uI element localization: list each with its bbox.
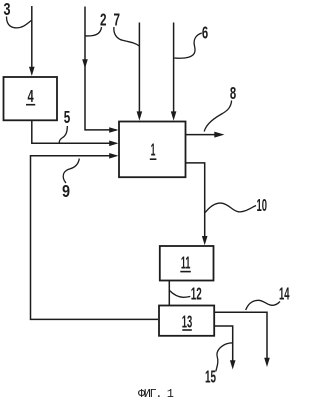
wire 7 (into box 1 top): [138, 23, 140, 113]
leader line for 14: [246, 300, 280, 310]
svg-text:7: 7: [113, 10, 120, 30]
svg-text:6: 6: [202, 22, 208, 42]
leader line for 6: [174, 33, 202, 58]
svg-text:12: 12: [191, 284, 202, 304]
svg-text:3: 3: [4, 0, 11, 19]
wire 5 (box 4 to box 1): [32, 121, 117, 144]
box 4: [4, 77, 58, 120]
leader line for 12: [170, 291, 191, 298]
svg-text:5: 5: [64, 107, 71, 127]
box 13: [159, 306, 214, 336]
svg-text:11: 11: [181, 252, 191, 272]
svg-text:15: 15: [205, 367, 216, 387]
wire 2 (vertical with mid arrowhead, then into box 1): [85, 7, 117, 130]
leader line for 10: [205, 203, 256, 212]
svg-text:10: 10: [257, 195, 268, 215]
svg-text:8: 8: [230, 83, 236, 103]
svg-text:9: 9: [62, 181, 70, 201]
wire 10 (box 1 right, down into box 11): [186, 163, 205, 237]
leader line for 9: [63, 159, 79, 184]
leader line for 8: [204, 101, 231, 132]
wire 15 (box 13 right, down): [214, 326, 232, 361]
box 1: [119, 122, 186, 178]
svg-text:1: 1: [151, 139, 156, 159]
wire 12 (box 11 to box 13): [168, 281, 170, 306]
svg-text:14: 14: [279, 284, 290, 304]
svg-text:13: 13: [182, 311, 193, 331]
leader line for 3: [7, 17, 32, 28]
wire 3 (into box 4): [31, 6, 33, 68]
leader line for 2: [85, 27, 101, 36]
box 11: [160, 246, 214, 281]
svg-text:ФИГ. 1: ФИГ. 1: [138, 387, 174, 400]
wire 8 (out of box 1 right): [186, 134, 215, 136]
svg-text:2: 2: [100, 10, 107, 30]
wire 9 (long left path into box 1 and down to box 13): [31, 156, 159, 320]
svg-text:4: 4: [28, 86, 34, 106]
leader line for 7: [114, 27, 139, 46]
leader line for 5: [59, 126, 67, 143]
wire 14 (box 13 right, down): [214, 312, 267, 358]
leader line for 15: [216, 343, 233, 372]
wire 6 (into box 1 top): [173, 23, 175, 113]
